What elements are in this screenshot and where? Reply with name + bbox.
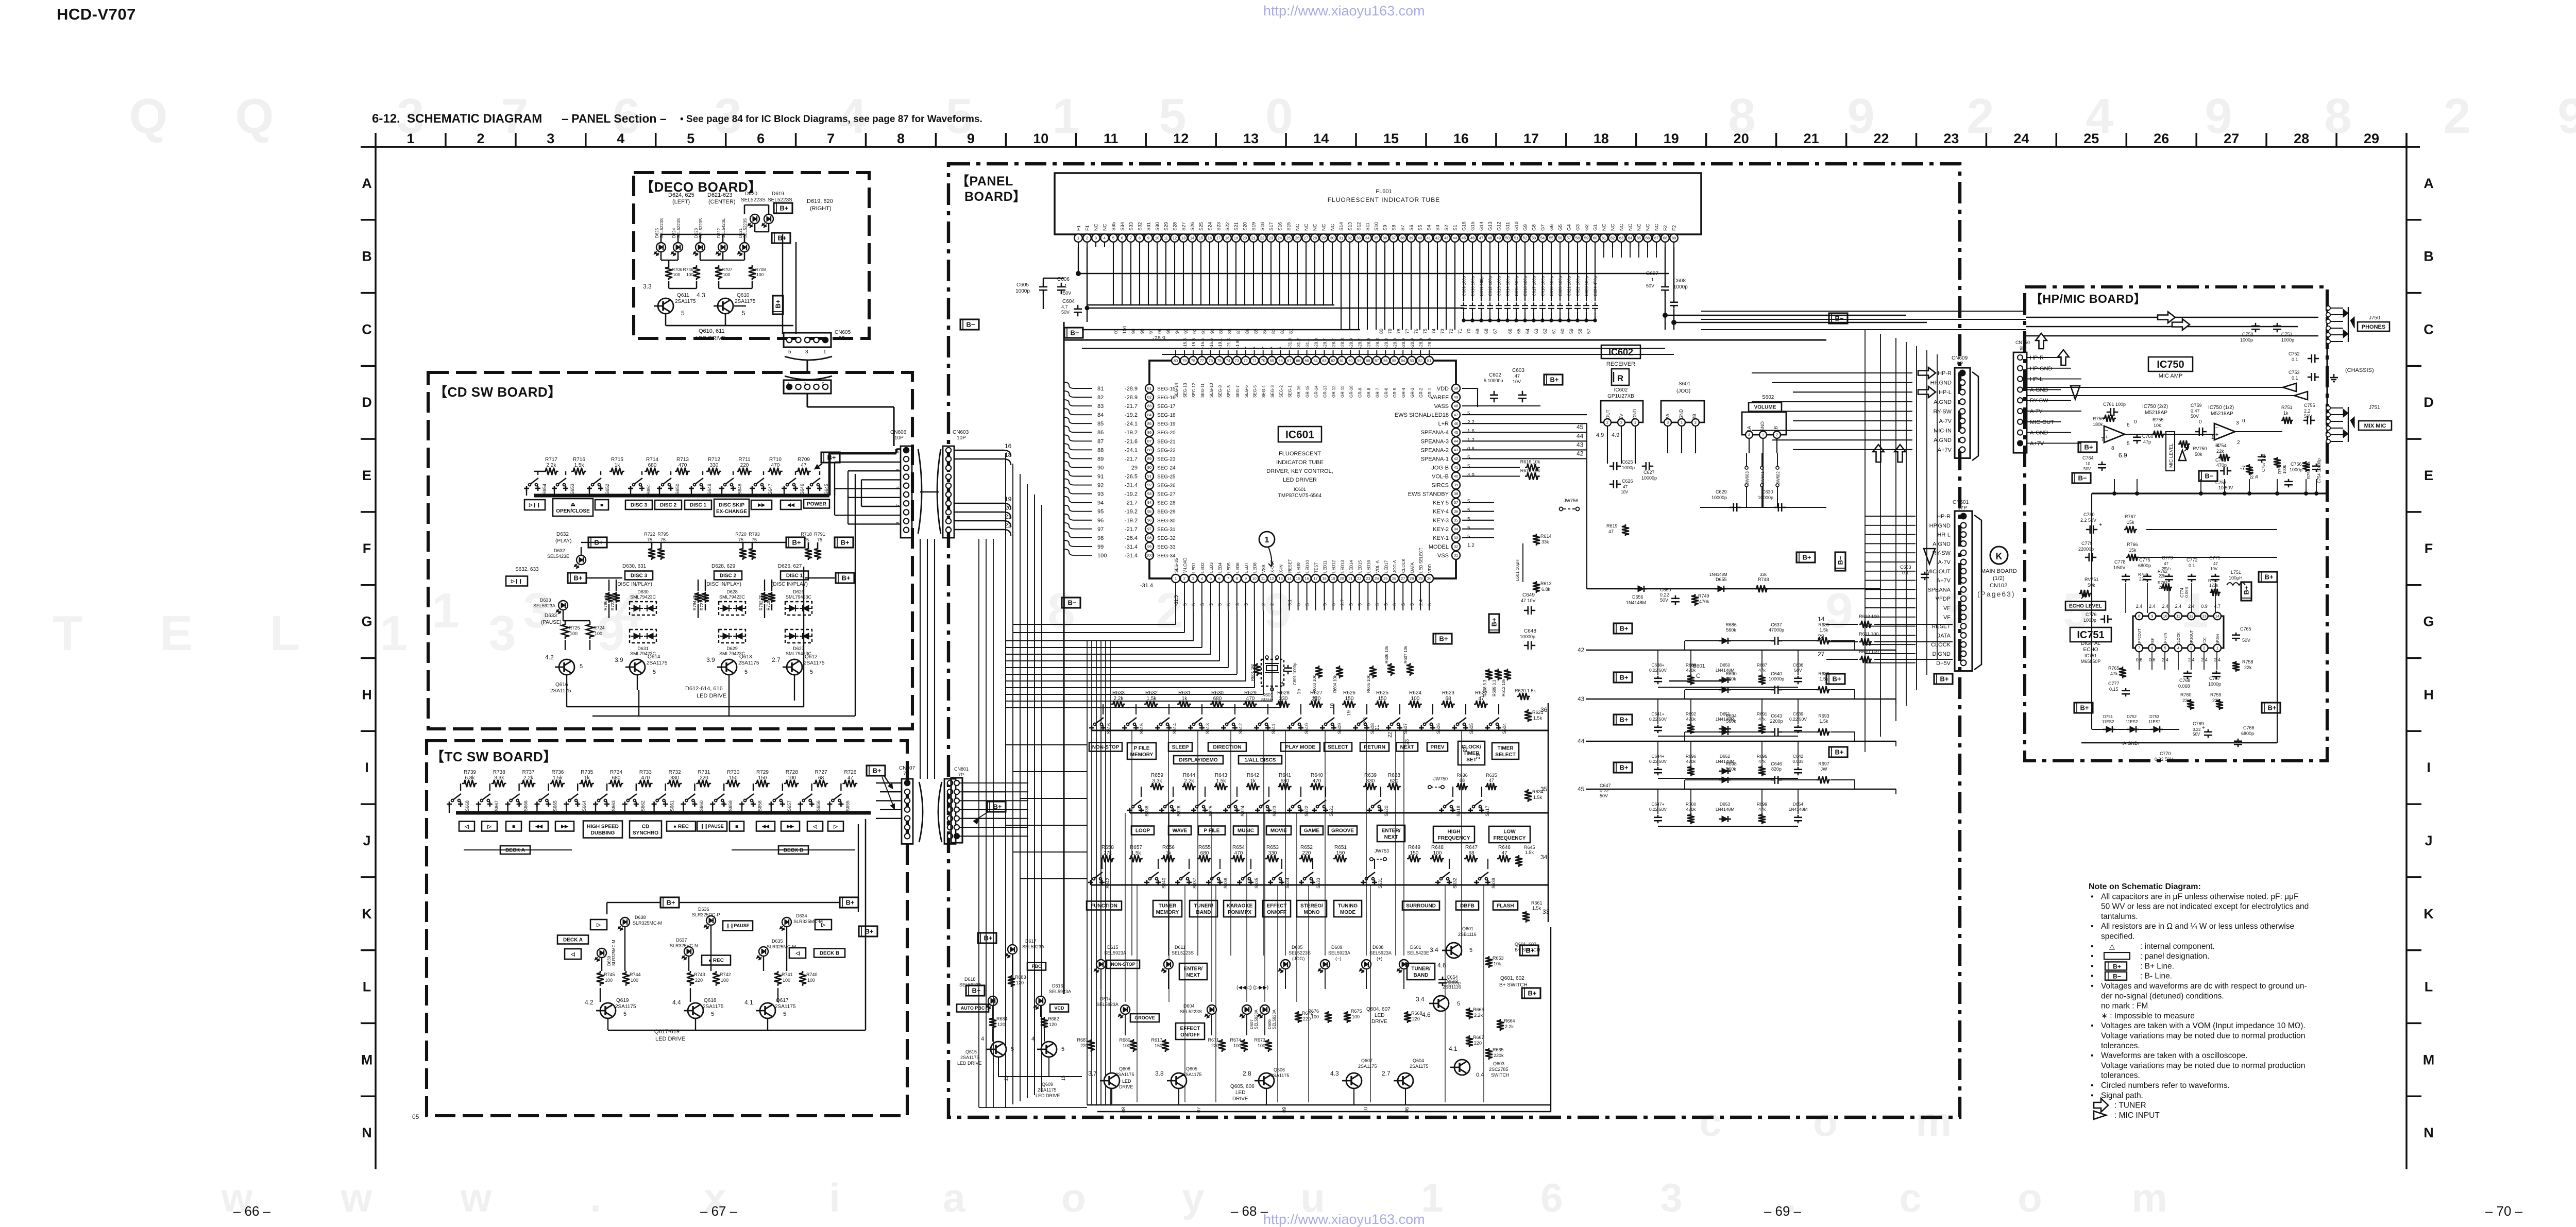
wire tc led top bus [607,902,660,904]
svg-text:20: 20 [1243,236,1247,241]
svg-text:5: 5 [1457,1001,1460,1007]
svg-text:MEMORY: MEMORY [1130,752,1154,758]
svg-text:69: 69 [1475,329,1480,334]
svg-text:SEG-19: SEG-19 [1157,421,1176,427]
S601 part box [1661,401,1704,422]
svg-text:67: 67 [1287,359,1291,363]
svg-text:■: ■ [600,503,603,508]
svg-text:B: B [2424,249,2434,264]
wire filter feed bus [1586,423,1587,589]
note tuner arrow [2094,1098,2108,1112]
svg-text:CN609: CN609 [1952,355,1968,361]
svg-text:S610: S610 [1304,723,1309,734]
wire B- vertical bus [1063,322,1064,994]
diode D655 1N4148M [1718,586,1724,592]
svg-text:S608: S608 [1370,723,1375,734]
svg-text:5: 5 [788,349,791,355]
svg-text:Note on Schematic Diagram:: Note on Schematic Diagram: [2089,882,2201,891]
svg-text:LED11: LED11 [1323,560,1328,573]
svg-text:Q601, 602: Q601, 602 [1500,976,1524,981]
svg-text:(JOG): (JOG) [1292,956,1305,961]
svg-text:3: 3 [1192,576,1194,581]
label GROOVE bottom [1130,1014,1159,1022]
svg-text:S29: S29 [1164,222,1170,231]
transistor Q607 2SA1175 [1346,1073,1362,1088]
svg-text:B+: B+ [1620,764,1629,772]
IC751 chip outline [2133,616,2224,648]
svg-text:100μH: 100μH [2229,575,2243,581]
svg-text:X-IN: X-IN [1279,565,1284,573]
svg-text:IC750 (1/2): IC750 (1/2) [2208,405,2234,411]
svg-text:11ES2: 11ES2 [2126,720,2138,724]
harness brace CN606 [918,449,922,534]
svg-text:1000p: 1000p [1622,465,1635,470]
svg-text:DECK B: DECK B [784,848,803,854]
svg-text:66: 66 [1507,329,1513,334]
svg-text:14: 14 [1279,681,1285,687]
svg-text:5: 5 [2164,646,2166,651]
svg-text:G3: G3 [1575,224,1581,231]
svg-text:w: w [460,1175,492,1220]
svg-text:100: 100 [1146,553,1153,558]
svg-text:R604 10k: R604 10k [1333,675,1337,693]
svg-text:9: 9 [1264,583,1291,638]
svg-text:c: c [1699,1099,1721,1145]
svg-text:F: F [2425,541,2433,556]
svg-text:(RIGHT): (RIGHT) [810,206,832,212]
svg-text:-19.2: -19.2 [1125,412,1138,418]
resistor R748 33k [1755,585,1769,592]
svg-text:G14: G14 [1479,221,1485,231]
svg-text:D605: D605 [1292,945,1303,950]
svg-text:SML79423C: SML79423C [719,594,745,600]
svg-text:18: 18 [1322,576,1326,581]
svg-text:0: 0 [2242,418,2245,424]
svg-text:S612: S612 [1238,723,1243,734]
label NON-STOP bottom [1107,960,1140,968]
switch S660 [683,802,684,807]
svg-text:21: 21 [1375,724,1380,730]
switch S649 [691,486,692,491]
svg-text:42: 42 [1454,456,1458,461]
svg-text:2: 2 [2237,440,2240,446]
signal arrow up 2 [1894,445,1906,462]
transistor Q619 2SA1175 [600,1003,616,1018]
svg-text:90: 90 [1147,465,1151,470]
svg-text:R605 10k: R605 10k [1366,675,1371,693]
svg-text:39: 39 [1454,483,1458,487]
svg-text:DRIVE: DRIVE [1371,1019,1387,1025]
svg-text:1000p: 1000p [1015,288,1030,294]
svg-text:1: 1 [2216,646,2218,651]
svg-text:50: 50 [1505,236,1510,241]
svg-text:R758: R758 [2242,659,2253,664]
svg-text:S659: S659 [728,800,733,811]
wires tc right risers [865,819,867,1030]
svg-text:7: 7 [1227,576,1229,581]
svg-text:● REC: ● REC [673,824,689,830]
svg-text:CN750: CN750 [2015,340,2030,345]
svg-text:9P: 9P [1957,361,1963,367]
wire bend collector A [1087,304,1334,305]
button deck B rev [789,948,806,958]
svg-text:2SA1175: 2SA1175 [1410,1064,1428,1069]
svg-text:T: T [53,606,83,661]
svg-text:3: 3 [1235,603,1240,606]
svg-text:V-LOAD: V-LOAD [1183,557,1188,573]
svg-text:GR-3: GR-3 [1410,387,1415,398]
svg-text:7: 7 [827,131,835,146]
svg-text:5: 5 [783,1011,786,1017]
svg-text:D617: D617 [1025,939,1037,944]
svg-text:MONO: MONO [1303,910,1319,915]
svg-text:3.8: 3.8 [1155,1070,1164,1077]
badge B+ deco top [774,203,792,213]
svg-text:13: 13 [1243,131,1259,146]
svg-text:50V: 50V [1600,793,1608,798]
svg-text:6-12.: 6-12. [372,112,400,126]
led D635 SLR325MC-M [759,947,768,956]
svg-text:5: 5 [1401,603,1406,606]
board outline PANEL BOARD [948,164,1960,1117]
svg-text:43: 43 [1454,448,1458,452]
wire FL601 left F1 pins down [1078,247,1079,274]
svg-text:7: 7 [2101,437,2104,442]
svg-text:R754: R754 [2215,443,2227,448]
svg-text:28: 28 [2294,131,2309,146]
svg-text:IC602: IC602 [1608,347,1633,357]
svg-text:+: + [2202,725,2205,731]
switch S664 [566,802,567,807]
svg-text:3: 3 [2190,646,2192,651]
svg-text:49: 49 [1454,395,1458,400]
svg-text:-21.7: -21.7 [1125,456,1138,462]
svg-text:SEG-7: SEG-7 [1235,385,1240,398]
svg-text:S622: S622 [1304,806,1309,816]
svg-text:NC: NC [1103,224,1108,231]
svg-text:5: 5 [1200,603,1205,606]
svg-text:S631: S631 [1378,878,1383,889]
svg-text:2SA1175: 2SA1175 [1358,1064,1377,1069]
svg-text:SPEANA-1: SPEANA-1 [1421,456,1449,462]
svg-text:55: 55 [1549,236,1553,241]
svg-text:GROOVE: GROOVE [1331,828,1354,834]
svg-text:DECK B: DECK B [820,951,839,957]
svg-text:L+R: L+R [1438,421,1449,427]
svg-text:R767: R767 [2125,514,2136,519]
resistor R745 100 [597,971,604,986]
led D621 [740,243,749,252]
watermark middle letters [53,583,2209,661]
svg-text:B+: B+ [1940,675,1949,683]
svg-text:S620: S620 [1384,806,1389,816]
svg-text:R668: R668 [1411,1011,1422,1016]
svg-text:•: • [2091,922,2094,931]
svg-text:31: 31 [1454,553,1458,558]
svg-text:SEG-8: SEG-8 [1227,385,1231,398]
resistor R601 1M [1253,663,1261,676]
svg-text:SIRCS: SIRCS [1431,483,1449,489]
svg-text:C608: C608 [1673,278,1686,284]
badge B+ filter 44 [1614,714,1632,725]
svg-text:: internal component.: : internal component. [2140,942,2215,951]
svg-text:G11: G11 [1505,222,1511,231]
svg-text:C765: C765 [2240,626,2251,632]
svg-text:R671: R671 [1208,1037,1219,1043]
svg-text:SLR325MC-M: SLR325MC-M [612,940,616,966]
svg-text:470k: 470k [1699,599,1709,604]
svg-text:88: 88 [1097,447,1104,453]
svg-text:16: 16 [1005,442,1012,450]
svg-text:26: 26 [1295,236,1299,241]
svg-text:19: 19 [1346,710,1352,716]
svg-text:1.5k: 1.5k [1533,715,1543,721]
svg-text:R690: R690 [1725,671,1737,676]
svg-text:23: 23 [1366,576,1370,581]
svg-text:F1: F1 [1076,225,1082,231]
svg-text:D620: D620 [745,191,757,197]
svg-text:4: 4 [1201,576,1203,581]
svg-text:64: 64 [1525,329,1530,334]
svg-text:SEG-17: SEG-17 [1157,404,1176,410]
svg-text:21: 21 [1348,576,1352,581]
svg-text:SPEANA: SPEANA [1927,587,1951,593]
svg-text:19: 19 [1331,576,1335,581]
svg-text:51: 51 [1514,236,1518,241]
svg-text:100: 100 [1433,850,1442,856]
svg-text:-31.5: -31.5 [1174,595,1179,606]
svg-text:SEL5923A: SEL5923A [1104,950,1126,956]
capacitor C627 10000p [1642,466,1646,467]
svg-text:LED1: LED1 [1192,562,1196,573]
svg-text:10000p: 10000p [1769,676,1784,681]
resistor R682 120 [1041,1017,1048,1029]
svg-text:5P: 5P [839,336,845,342]
svg-text:B−: B− [1068,599,1077,607]
svg-text:C761 100p: C761 100p [2103,402,2126,407]
svg-text:5: 5 [1296,603,1301,606]
diode block D627 SML79423C [785,629,812,643]
wire cd sw row bus [534,493,829,497]
svg-text:22k: 22k [2159,574,2166,578]
svg-text:S33: S33 [1129,222,1134,231]
switch S636 [1208,880,1210,885]
wire F1 feed line [1078,273,1669,274]
svg-text:SEL5223S: SEL5223S [1172,950,1194,956]
svg-text:H: H [362,687,372,702]
svg-text:28: 28 [1410,576,1414,581]
svg-text:S34: S34 [1120,222,1126,231]
resistor R664 2.2k [1497,1019,1504,1031]
svg-text:DISC 2: DISC 2 [720,573,737,579]
svg-text:(JOG): (JOG) [1676,388,1690,394]
svg-text:D630, 631: D630, 631 [622,564,647,569]
svg-text:41: 41 [1454,465,1458,470]
svg-text:99: 99 [1097,544,1104,550]
svg-text:-28.9: -28.9 [1348,338,1353,348]
svg-text:C648: C648 [1524,628,1536,634]
label EFFECT ON/OFF bottom [1176,1023,1205,1039]
svg-text:•: • [2091,1081,2094,1090]
svg-text:5: 5 [623,1011,626,1017]
svg-text:B+: B+ [774,299,782,308]
svg-text:100: 100 [783,978,790,983]
svg-text:56: 56 [1558,236,1562,241]
svg-text:PREV: PREV [1430,745,1445,751]
svg-text:47: 47 [1454,413,1458,417]
svg-text:IC751: IC751 [2084,653,2097,658]
svg-text:R712: R712 [708,457,720,463]
resistor R724 100 [586,622,594,639]
svg-text:DISC 2: DISC 2 [660,503,677,508]
svg-text:R686: R686 [1725,622,1737,627]
svg-text:D650: D650 [1720,662,1731,668]
resistor R746 100 [693,265,700,280]
svg-text:1.5k: 1.5k [1532,906,1541,911]
svg-text:6: 6 [1540,1175,1563,1220]
svg-text:R645: R645 [1524,845,1535,850]
wires right bus verticals [1865,330,1866,752]
svg-text:HCD-V707: HCD-V707 [57,5,136,23]
wire deco transistor connections [696,281,698,288]
svg-text:70: 70 [1466,329,1471,334]
svg-text:F2: F2 [1672,225,1677,231]
svg-text:5: 5 [1469,947,1472,953]
svg-text:SEG-28: SEG-28 [1157,501,1176,506]
svg-text:-1.9: -1.9 [1235,340,1240,348]
svg-text:LED DRIVE: LED DRIVE [1036,1093,1060,1098]
svg-text:SEL5223S: SEL5223S [741,197,766,203]
svg-text:Q607: Q607 [1361,1058,1372,1063]
svg-text:1.5k: 1.5k [1216,778,1227,784]
svg-text:LED DRIVE: LED DRIVE [655,1036,685,1042]
svg-text:S651: S651 [646,484,651,495]
svg-text:79: 79 [1182,359,1187,363]
svg-text:-19.1: -19.1 [1217,338,1223,348]
svg-text:R698: R698 [1725,761,1737,766]
svg-text:G13: G13 [1488,221,1494,231]
svg-text:RESET: RESET [1288,559,1293,573]
switch S637 [1177,880,1179,885]
svg-text:【PANEL: 【PANEL [956,174,1013,189]
svg-text:ON/OFF: ON/OFF [1180,1032,1200,1038]
svg-text:R674: R674 [1230,1037,1241,1043]
svg-text:G2: G2 [1584,224,1590,231]
svg-text:S9: S9 [1383,225,1388,231]
svg-text:SEG-22: SEG-22 [1157,448,1176,453]
svg-text:75: 75 [647,537,652,542]
svg-text:LED: LED [1235,1090,1245,1096]
svg-text:GR-12: GR-12 [1332,385,1336,398]
svg-text:90: 90 [1097,465,1104,471]
svg-text:0: 0 [2134,419,2137,425]
svg-text:5: 5 [2127,441,2130,447]
svg-text:38: 38 [1400,236,1404,241]
svg-text:◁: ◁ [812,824,817,830]
svg-text:Q601: Q601 [1462,926,1473,931]
svg-text:R652: R652 [1300,845,1313,850]
wires tc leds verticals [624,927,625,971]
svg-text:22k: 22k [2244,665,2252,670]
svg-text:10000p: 10000p [1520,634,1535,639]
switch S633 [1301,880,1302,885]
svg-text:D604: D604 [1183,1003,1195,1009]
svg-text:SEG-6: SEG-6 [1244,385,1249,398]
svg-text:S27: S27 [1181,222,1187,231]
svg-text:VOLUME: VOLUME [1754,405,1776,411]
svg-text:16: 16 [1453,131,1469,146]
wire F2 pins down [1665,247,1666,283]
svg-text:– 68 –: – 68 – [1231,1203,1268,1219]
svg-text:S2: S2 [1444,225,1450,231]
svg-text:8: 8 [1047,583,1075,638]
svg-text:RY-SW: RY-SW [2030,398,2048,404]
svg-text:10V: 10V [2210,567,2218,571]
svg-text:50V: 50V [1061,310,1070,315]
waveform ref circle 1 [1259,532,1275,547]
svg-text:-21.7: -21.7 [1125,526,1138,533]
svg-text:tolerances.: tolerances. [2101,1042,2140,1050]
svg-text:SEG-4: SEG-4 [1262,385,1266,398]
svg-text:6.8k: 6.8k [465,775,476,781]
svg-text:50 WV or less are not indicate: 50 WV or less are not indicated except f… [2101,902,2309,911]
svg-text:B+: B+ [1439,635,1448,643]
wire vdd net [1462,388,1478,389]
svg-text:JW750: JW750 [1433,776,1448,781]
svg-text:DIGITAL: DIGITAL [2081,641,2101,646]
svg-text:R707: R707 [722,267,733,272]
svg-text:R728: R728 [786,770,798,775]
svg-text:220: 220 [1474,1041,1482,1046]
svg-text:C774: C774 [2180,587,2184,598]
switch S668 [449,802,450,807]
switch S640 [1146,880,1148,885]
svg-text:0.22 50V: 0.22 50V [2155,757,2173,762]
svg-text:15k: 15k [2129,548,2137,553]
svg-text:95: 95 [1097,509,1104,515]
button pause mid [723,921,753,931]
svg-text:R632: R632 [1145,690,1158,696]
svg-text:MEMORY: MEMORY [1156,910,1179,915]
svg-text:B+: B+ [1620,716,1629,724]
transistor Q618 2SA1175 [688,1003,703,1018]
svg-text:▷: ▷ [596,923,601,928]
svg-text:D655: D655 [1716,577,1727,582]
svg-text:▶▶: ▶▶ [757,502,766,507]
switch S609 [1322,725,1324,730]
capacitor C654 1000p [1442,977,1444,980]
svg-text:5: 5 [1427,603,1432,606]
svg-text:VDD: VDD [1437,386,1449,392]
svg-text:1: 1 [1064,283,1067,288]
svg-text:620: 620 [1390,778,1399,784]
svg-text:1.5k: 1.5k [1819,627,1828,633]
svg-text:3: 3 [804,382,806,387]
svg-text:w: w [341,1175,372,1220]
svg-text:88: 88 [1147,448,1151,452]
svg-text:MIC LEVEL: MIC LEVEL [2168,444,2174,468]
svg-text:2.2k: 2.2k [547,463,557,468]
svg-text:10: 10 [1033,131,1048,146]
svg-text:– 70 –: – 70 – [2485,1203,2523,1219]
svg-text:5: 5 [1210,576,1212,581]
row3 button labels [1087,901,1122,910]
svg-text:Q609: Q609 [1042,1082,1053,1087]
capacitor C601 1000p [1287,665,1289,668]
svg-text:150: 150 [1345,696,1354,702]
switch S647 [752,486,753,491]
svg-text:NC: NC [1637,224,1642,231]
